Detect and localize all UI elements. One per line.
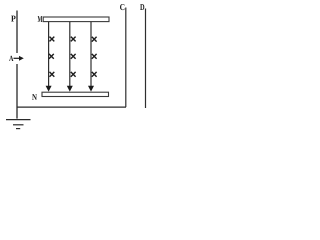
magnetic field cross row3 col1 xyxy=(50,72,55,77)
svg-text:D: D xyxy=(140,2,145,12)
field line 1 xyxy=(48,22,50,86)
svg-text:C: C xyxy=(120,2,125,12)
magnetic field cross row2 col2 xyxy=(71,54,76,59)
wire P vertical lower segment xyxy=(16,64,18,119)
field line 3 arrowhead xyxy=(88,86,94,92)
wire P vertical upper segment xyxy=(16,11,18,54)
field line 2 xyxy=(69,22,71,86)
magnetic field cross row3 col2 xyxy=(71,72,76,77)
wire D vertical xyxy=(145,9,147,109)
magnetic field cross row2 col3 xyxy=(92,54,97,59)
wire C vertical xyxy=(125,8,127,108)
magnetic field cross row3 col3 xyxy=(92,72,97,77)
wire bottom horizontal xyxy=(17,106,126,108)
svg-text:N: N xyxy=(32,92,37,102)
magnetic field cross row1 col1 xyxy=(50,37,55,42)
svg-text:M: M xyxy=(38,14,43,24)
field line 2 arrowhead xyxy=(67,86,73,92)
magnetic field cross row1 col2 xyxy=(71,37,76,42)
field line 1 arrowhead xyxy=(46,86,52,92)
svg-text:P: P xyxy=(11,14,16,24)
magnetic field cross row1 col3 xyxy=(92,37,97,42)
magnetic field cross row2 col1 xyxy=(49,54,54,59)
plate M (top capacitor plate) xyxy=(43,17,109,22)
plate N (bottom capacitor plate) xyxy=(42,92,109,96)
ground symbol xyxy=(6,120,31,129)
field line 3 xyxy=(90,22,92,86)
svg-text:A: A xyxy=(9,54,14,63)
arrow A input direction xyxy=(14,56,24,61)
